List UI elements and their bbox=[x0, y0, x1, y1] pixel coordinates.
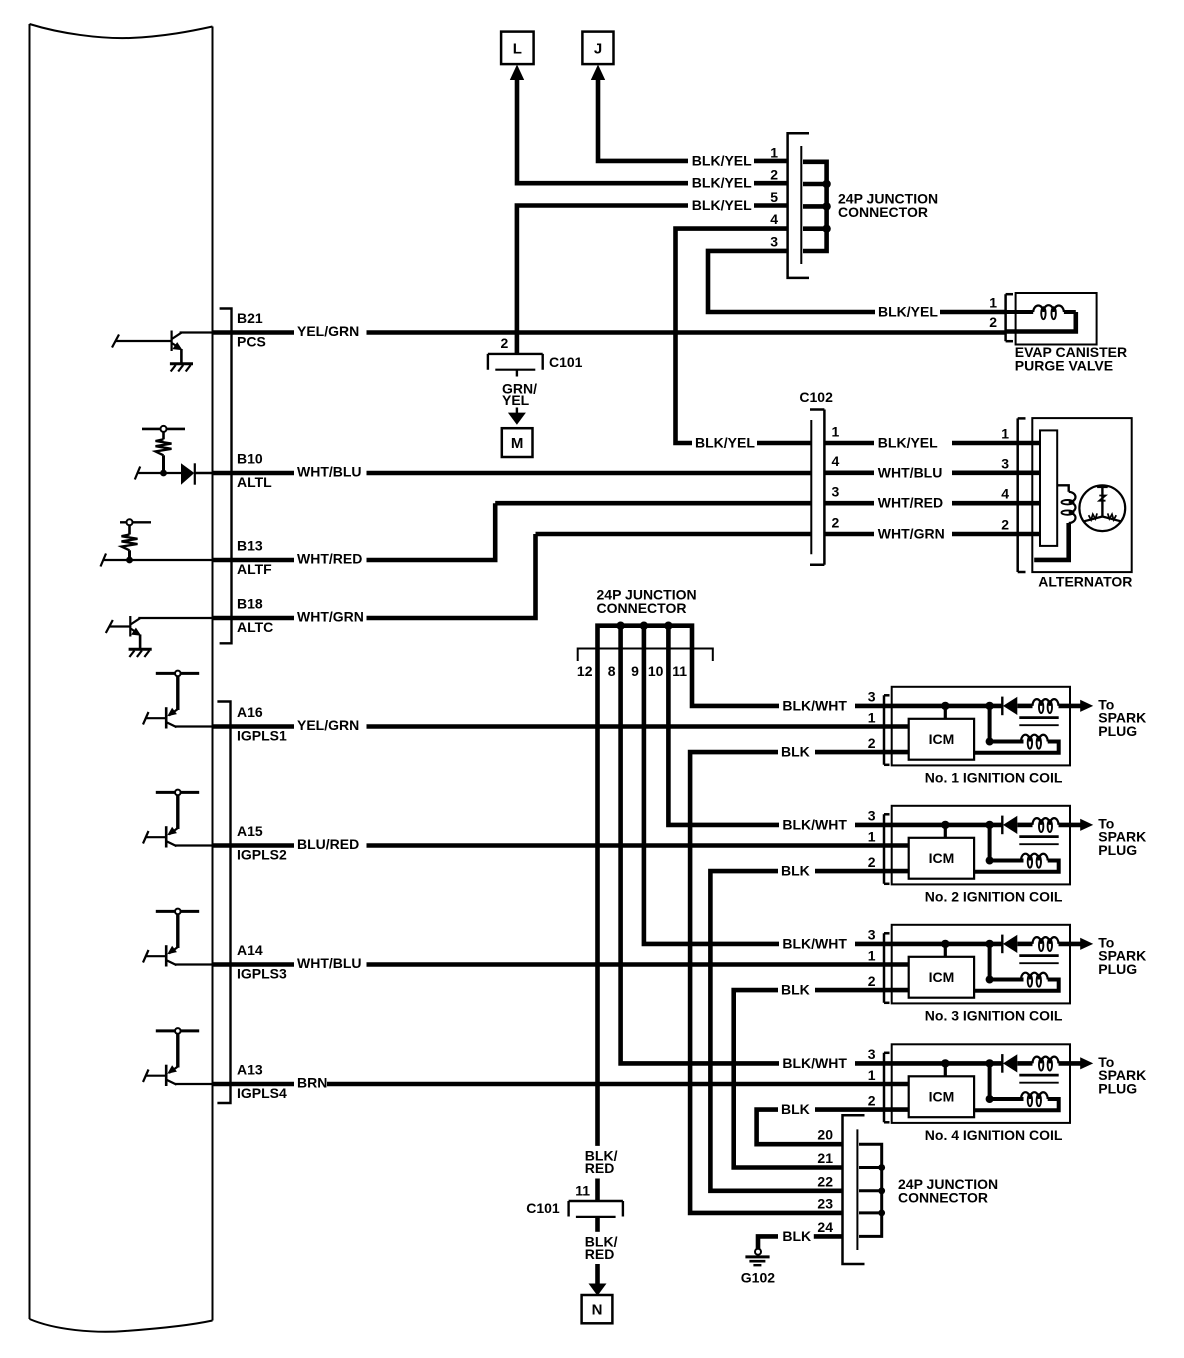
wire label BLK/YEL (C102 pin 1) bbox=[695, 435, 755, 451]
svg-text:ALTL: ALTL bbox=[237, 474, 272, 490]
arrow to spark plug (coil 4) bbox=[1080, 1057, 1093, 1069]
ignition coil 3 connector bracket bbox=[884, 933, 890, 1003]
voltage regulator field coil L2 bbox=[1034, 485, 1075, 560]
svg-text:A16: A16 bbox=[237, 704, 263, 720]
svg-text:8: 8 bbox=[608, 663, 616, 679]
svg-text:A13: A13 bbox=[237, 1062, 263, 1078]
connector C101 (bottom) symbol bbox=[569, 1201, 623, 1217]
svg-text:2: 2 bbox=[770, 167, 778, 183]
alternator box bbox=[1032, 418, 1131, 572]
wire B10 WHT/BLU to C102 pin 4 bbox=[213, 471, 811, 476]
pin 21 label (bottom connector) bbox=[817, 1150, 833, 1166]
pin 2 label (C102) bbox=[832, 514, 840, 530]
svg-text:ALTF: ALTF bbox=[237, 561, 272, 577]
pin A16 name label IGPLS1 bbox=[237, 727, 287, 743]
wire label BLK (ground) bbox=[782, 1228, 811, 1244]
wire label WHT/BLU bbox=[297, 955, 362, 971]
pin 11 label (C101 bottom) bbox=[575, 1182, 590, 1198]
node coil2 primary tap bbox=[985, 821, 1023, 865]
to-spark-plug label (coil 1) bbox=[1098, 696, 1146, 739]
svg-text:BLU/RED: BLU/RED bbox=[297, 836, 359, 852]
voltage supply node (B13 pull-up) bbox=[120, 519, 151, 525]
svg-text:ICM: ICM bbox=[929, 850, 955, 866]
to-spark-plug label (coil 4) bbox=[1098, 1054, 1146, 1097]
connector C102 name label bbox=[799, 389, 833, 405]
svg-text:24: 24 bbox=[817, 1219, 833, 1235]
wire label BRN bbox=[297, 1075, 327, 1091]
svg-text:B18: B18 bbox=[237, 596, 263, 612]
wire C102 pin2 WHT/GRN to alternator pin 2 bbox=[825, 532, 1018, 537]
24P junction connector (bottom) body bbox=[843, 1115, 865, 1264]
pin 3 label (coil 2) bbox=[868, 808, 876, 824]
ICM module U3 bbox=[909, 957, 974, 998]
svg-text:C102: C102 bbox=[799, 389, 833, 405]
wire label YEL/GRN bbox=[297, 717, 359, 733]
wire label BLK (coil 4) bbox=[781, 1101, 810, 1117]
wire label BLK/WHT (coil 4) bbox=[782, 1055, 847, 1071]
EVAP canister purge valve box bbox=[1016, 293, 1097, 345]
svg-text:IGPLS2: IGPLS2 bbox=[237, 846, 287, 862]
transistor Q2 (B18 ALTC driver) bbox=[106, 616, 213, 648]
svg-text:A14: A14 bbox=[237, 942, 263, 958]
svg-text:3: 3 bbox=[868, 808, 876, 824]
svg-text:1: 1 bbox=[868, 947, 876, 963]
svg-text:3: 3 bbox=[868, 1046, 876, 1062]
junction dot pin 8 bbox=[616, 622, 624, 630]
svg-text:BRN: BRN bbox=[297, 1075, 327, 1091]
wire coil 1 pin 2 BLK to bottom junction connector bbox=[690, 752, 909, 1213]
wire B13 internal bbox=[101, 554, 214, 567]
ECM connector bracket (B21-B18) bbox=[220, 309, 232, 644]
svg-text:BLK/WHT: BLK/WHT bbox=[782, 816, 847, 832]
svg-text:IGPLS4: IGPLS4 bbox=[237, 1085, 287, 1101]
node B13 junction bbox=[126, 557, 133, 564]
wire label BLK/RED (below C101) bbox=[585, 1234, 618, 1262]
pin B10 name label ALTL bbox=[237, 474, 272, 490]
primary winding (coil 2) bbox=[974, 854, 1059, 872]
ground (Q2 emitter) bbox=[129, 649, 152, 657]
diode D1 (B10) bbox=[181, 463, 213, 484]
wire label WHT/BLU (alternator) bbox=[878, 464, 943, 480]
svg-text:No. 3 IGNITION COIL: No. 3 IGNITION COIL bbox=[925, 1007, 1063, 1023]
svg-text:No. 1 IGNITION COIL: No. 1 IGNITION COIL bbox=[925, 769, 1063, 785]
svg-text:ALTERNATOR: ALTERNATOR bbox=[1038, 574, 1132, 590]
wire below C101 bbox=[595, 1217, 600, 1232]
wire label BLK/WHT (coil 3) bbox=[782, 935, 847, 951]
pin A13 name label IGPLS4 bbox=[237, 1085, 287, 1101]
secondary winding (coil 4) bbox=[1017, 1057, 1058, 1071]
node coil3 ICM tap bbox=[941, 940, 949, 957]
pin 2 label (coil 2) bbox=[868, 854, 876, 870]
svg-text:20: 20 bbox=[817, 1127, 833, 1143]
svg-text:PLUG: PLUG bbox=[1098, 842, 1137, 858]
wire coil 2 to spark plug bbox=[1059, 823, 1083, 828]
wire C102 pin1 BLK/YEL to alternator pin 1 bbox=[825, 441, 1018, 446]
wire coil 1 to spark plug bbox=[1059, 704, 1083, 709]
24P junction connector (top) name label bbox=[838, 191, 938, 221]
svg-text:YEL: YEL bbox=[502, 392, 530, 408]
off-page connector box L bbox=[501, 32, 533, 65]
svg-text:2: 2 bbox=[1001, 517, 1009, 533]
ignition coil 3 box bbox=[892, 925, 1070, 1004]
pin B13 number label bbox=[237, 538, 263, 554]
primary winding (coil 1) bbox=[974, 735, 1059, 753]
svg-text:ICM: ICM bbox=[929, 1088, 955, 1104]
24P junction connector (middle) name label bbox=[597, 587, 697, 617]
ground G102 name label bbox=[741, 1270, 775, 1286]
svg-text:2: 2 bbox=[832, 514, 840, 530]
pin A15 number label bbox=[237, 823, 263, 839]
ICM module U2 bbox=[909, 838, 974, 879]
pin 2 label (coil 1) bbox=[868, 735, 876, 751]
ignition coil 3 name label bbox=[925, 1007, 1063, 1023]
pin 3 label (alternator) bbox=[1001, 455, 1009, 471]
pin 22 label (bottom connector) bbox=[817, 1173, 833, 1189]
svg-text:B21: B21 bbox=[237, 310, 263, 326]
svg-text:1: 1 bbox=[868, 709, 876, 725]
svg-text:BLK/YEL: BLK/YEL bbox=[878, 304, 938, 320]
wire pin 24 BLK to ground bbox=[758, 1236, 843, 1248]
wire label BLK (coil 1) bbox=[781, 744, 810, 760]
svg-text:1: 1 bbox=[868, 1067, 876, 1083]
off-page connector box N bbox=[582, 1295, 613, 1323]
svg-text:CONNECTOR: CONNECTOR bbox=[898, 1190, 988, 1206]
pin 2 label (coil 4) bbox=[868, 1092, 876, 1108]
pin A14 number label bbox=[237, 942, 263, 958]
wire junction pin 9 to No.3 coil pin 3 BLK/WHT bbox=[644, 626, 1002, 944]
secondary winding (coil 1) bbox=[1017, 699, 1058, 713]
pin A13 number label bbox=[237, 1062, 263, 1078]
wire label BLK/YEL (alternator) bbox=[878, 435, 938, 451]
transformer core (coil 3) bbox=[1019, 956, 1058, 964]
wire coil 4 to spark plug bbox=[1059, 1061, 1083, 1066]
pin A15 name label IGPLS2 bbox=[237, 846, 287, 862]
svg-text:BLK/WHT: BLK/WHT bbox=[782, 1055, 847, 1071]
svg-text:RED: RED bbox=[585, 1246, 615, 1262]
pin 1 label (C102) bbox=[832, 423, 840, 439]
24P junction connector (bottom) internal bus bbox=[859, 1144, 882, 1236]
svg-text:WHT/RED: WHT/RED bbox=[878, 495, 943, 511]
wire label BLK (coil 3) bbox=[781, 982, 810, 998]
pin 24 label (bottom connector) bbox=[817, 1219, 833, 1235]
svg-text:PCS: PCS bbox=[237, 333, 266, 349]
pin 3 label (coil 3) bbox=[868, 927, 876, 943]
svg-text:BLK/WHT: BLK/WHT bbox=[782, 697, 847, 713]
pin 1 label (coil 3) bbox=[868, 947, 876, 963]
connector C101 (bottom) name label bbox=[526, 1200, 560, 1216]
primary winding (coil 4) bbox=[974, 1092, 1059, 1110]
pin 2 label (alternator) bbox=[1001, 517, 1009, 533]
24P junction connector (bottom) name label bbox=[898, 1176, 998, 1206]
wire label BLK/WHT (coil 2) bbox=[782, 816, 847, 832]
svg-text:2: 2 bbox=[501, 335, 509, 351]
ICM module U1 bbox=[909, 719, 974, 760]
svg-text:BLK/WHT: BLK/WHT bbox=[782, 935, 847, 951]
ignition coil 4 name label bbox=[925, 1127, 1063, 1143]
svg-text:9: 9 bbox=[631, 663, 639, 679]
svg-text:YEL/GRN: YEL/GRN bbox=[297, 323, 359, 339]
pin 2 label (coil 3) bbox=[868, 973, 876, 989]
alternator name label bbox=[1038, 574, 1132, 590]
arrow to spark plug (coil 2) bbox=[1080, 819, 1093, 831]
svg-text:BLK/YEL: BLK/YEL bbox=[878, 435, 938, 451]
wire label BLK/RED (above C101) bbox=[585, 1148, 618, 1176]
transistor Q1 (B21 PCS driver) bbox=[112, 331, 213, 363]
pin B18 name label ALTC bbox=[237, 619, 273, 635]
node coil4 primary tap bbox=[985, 1059, 1023, 1103]
svg-text:L: L bbox=[513, 41, 522, 58]
pin 3 label (coil 1) bbox=[868, 689, 876, 705]
svg-text:3: 3 bbox=[1001, 455, 1009, 471]
svg-text:RED: RED bbox=[585, 1160, 615, 1176]
off-page connector box M bbox=[502, 428, 533, 457]
wire label WHT/GRN bbox=[297, 609, 364, 625]
wire C102 pin4 WHT/BLU to alternator pin 3 bbox=[825, 470, 1018, 475]
diode D3 (coil 2) bbox=[1002, 816, 1017, 835]
pin B10 number label bbox=[237, 451, 263, 467]
ignition coil 2 box bbox=[892, 806, 1070, 885]
arrow to M bbox=[508, 413, 526, 425]
svg-text:PLUG: PLUG bbox=[1098, 1081, 1137, 1097]
wire label BLK/YEL (pin 5) bbox=[692, 197, 752, 213]
to-spark-plug label (coil 2) bbox=[1098, 815, 1146, 858]
pin 10 label (middle connector) bbox=[648, 663, 664, 679]
wire C102 pin3 WHT/RED to alternator pin 4 bbox=[825, 501, 1018, 506]
junction dot pin 9 bbox=[640, 622, 648, 630]
pin 4 label (alternator) bbox=[1001, 486, 1009, 502]
wire label GRN/YEL bbox=[502, 380, 537, 408]
connector C101 (top) symbol bbox=[488, 354, 543, 377]
pin B13 name label ALTF bbox=[237, 561, 272, 577]
svg-text:WHT/GRN: WHT/GRN bbox=[878, 526, 945, 542]
wire B21 YEL/GRN to C101 and EVAP valve bbox=[213, 330, 1006, 335]
pin 2 label (top connector) bbox=[770, 167, 778, 183]
pin 1 label (alternator) bbox=[1001, 426, 1009, 442]
svg-text:ICM: ICM bbox=[929, 731, 955, 747]
svg-text:4: 4 bbox=[770, 211, 778, 227]
solenoid coil L1 (EVAP valve) bbox=[1006, 305, 1076, 331]
svg-text:G102: G102 bbox=[741, 1270, 775, 1286]
primary winding (coil 3) bbox=[974, 973, 1059, 991]
svg-text:11: 11 bbox=[672, 663, 687, 679]
junction bus wire 12-to-11 bbox=[598, 626, 780, 1146]
svg-text:3: 3 bbox=[868, 927, 876, 943]
svg-text:2: 2 bbox=[868, 735, 876, 751]
arrow to N bbox=[589, 1284, 607, 1296]
arrow to spark plug (coil 3) bbox=[1080, 938, 1093, 950]
node coil1 ICM tap bbox=[941, 702, 949, 719]
wire label WHT/GRN (alternator) bbox=[878, 526, 945, 542]
wire label WHT/RED (alternator) bbox=[878, 495, 943, 511]
ignition coil 4 connector bracket bbox=[884, 1053, 890, 1123]
pin A14 name label IGPLS3 bbox=[237, 965, 287, 981]
wire junction pin 3 BLK/YEL to EVAP valve pin 1 bbox=[708, 251, 1006, 312]
to-spark-plug label (coil 3) bbox=[1098, 934, 1146, 977]
svg-text:12: 12 bbox=[577, 663, 593, 679]
svg-text:WHT/BLU: WHT/BLU bbox=[297, 955, 362, 971]
pin 23 label (bottom connector) bbox=[817, 1195, 833, 1211]
junction dot pin 4 bbox=[822, 225, 830, 233]
ground (Q1 emitter) bbox=[170, 364, 193, 372]
wire junction pin 4 BLK/YEL to C102 pin 1 bbox=[676, 229, 811, 443]
svg-text:3: 3 bbox=[770, 234, 778, 250]
svg-text:3: 3 bbox=[832, 484, 840, 500]
transformer core (coil 2) bbox=[1019, 837, 1058, 845]
ignition coil 2 name label bbox=[925, 888, 1063, 904]
wire label BLK/YEL (pin 2) bbox=[692, 175, 752, 191]
wire label WHT/BLU bbox=[297, 464, 362, 480]
pin 2 label (C101 top) bbox=[501, 335, 509, 351]
node coil1 primary tap bbox=[985, 702, 1023, 746]
transistor Q6 (A13 IGPLS4 driver) bbox=[143, 1028, 213, 1086]
24P junction connector (top) internal bus bbox=[803, 162, 827, 251]
transistor Q4 (A15 IGPLS2 driver) bbox=[143, 790, 213, 848]
pin 8 label (middle connector) bbox=[608, 663, 616, 679]
pin B21 number label bbox=[237, 310, 263, 326]
ignition coil 1 box bbox=[892, 687, 1070, 766]
svg-text:1: 1 bbox=[832, 423, 840, 439]
svg-text:2: 2 bbox=[989, 314, 997, 330]
wire junction pin 11 to No.1 coil pin 3 BLK/WHT bbox=[855, 704, 1002, 709]
wire A15 BLU/RED to No.2 ignition coil pin 1 bbox=[213, 843, 909, 848]
arrow to J bbox=[591, 65, 605, 81]
arrow to spark plug (coil 1) bbox=[1080, 700, 1093, 712]
svg-text:WHT/RED: WHT/RED bbox=[297, 551, 362, 567]
pin 1 label (top connector) bbox=[770, 144, 778, 160]
svg-text:WHT/GRN: WHT/GRN bbox=[297, 609, 364, 625]
secondary winding (coil 3) bbox=[1017, 937, 1058, 951]
junction dot pin 21 bbox=[878, 1164, 885, 1171]
svg-text:No. 2 IGNITION COIL: No. 2 IGNITION COIL bbox=[925, 888, 1063, 904]
junction dot pin 10 bbox=[664, 622, 672, 630]
node B10 junction bbox=[160, 470, 167, 477]
pin A16 number label bbox=[237, 704, 263, 720]
svg-text:C101: C101 bbox=[549, 354, 583, 370]
ignition coil 1 connector bracket bbox=[884, 695, 890, 765]
pin 1 label (EVAP valve) bbox=[989, 295, 997, 311]
svg-text:WHT/BLU: WHT/BLU bbox=[878, 464, 943, 480]
pin 9 label (middle connector) bbox=[631, 663, 639, 679]
svg-text:YEL/GRN: YEL/GRN bbox=[297, 717, 359, 733]
svg-text:23: 23 bbox=[817, 1195, 833, 1211]
node coil4 ICM tap bbox=[941, 1059, 949, 1076]
wire A16 YEL/GRN to No.1 ignition coil pin 1 bbox=[213, 724, 909, 729]
EVAP valve connector bracket bbox=[1006, 294, 1013, 341]
svg-text:3: 3 bbox=[868, 689, 876, 705]
svg-text:BLK: BLK bbox=[781, 744, 810, 760]
pin B21 name label PCS bbox=[237, 333, 266, 349]
wire A14 WHT/BLU to No.3 ignition coil pin 1 bbox=[213, 962, 909, 967]
svg-text:21: 21 bbox=[817, 1150, 833, 1166]
off-page connector box J bbox=[582, 32, 613, 65]
wire label BLK/WHT (coil 1) bbox=[782, 697, 847, 713]
junction dot pin 5 bbox=[822, 202, 830, 210]
secondary winding (coil 2) bbox=[1017, 818, 1058, 832]
transistor Q3 (A16 IGPLS1 driver) bbox=[143, 671, 213, 729]
svg-text:BLK: BLK bbox=[781, 863, 810, 879]
pin 5 label (top connector) bbox=[770, 189, 778, 205]
svg-text:ICM: ICM bbox=[929, 969, 955, 985]
wire coil 2 pin 2 BLK to bottom junction connector bbox=[710, 871, 908, 1191]
pin 12 label (middle connector) bbox=[577, 663, 593, 679]
svg-text:5: 5 bbox=[770, 189, 778, 205]
svg-text:2: 2 bbox=[868, 854, 876, 870]
transformer core (coil 4) bbox=[1019, 1075, 1058, 1083]
ECM connector bracket (A16-A13) bbox=[217, 702, 230, 1104]
svg-text:4: 4 bbox=[832, 453, 840, 469]
svg-text:BLK: BLK bbox=[781, 982, 810, 998]
EVAP canister purge valve name label bbox=[1015, 344, 1127, 374]
svg-text:IGPLS3: IGPLS3 bbox=[237, 965, 287, 981]
alternator connector bracket bbox=[1018, 418, 1026, 572]
svg-text:BLK: BLK bbox=[781, 1101, 810, 1117]
svg-text:WHT/BLU: WHT/BLU bbox=[297, 464, 362, 480]
wire junction pin 10 to No.2 coil pin 3 BLK/WHT bbox=[668, 626, 1001, 825]
transformer core (coil 1) bbox=[1019, 718, 1058, 726]
diode D2 (coil 1) bbox=[1002, 697, 1017, 716]
svg-text:10: 10 bbox=[648, 663, 664, 679]
node coil3 primary tap bbox=[985, 940, 1023, 984]
wire coil 4 pin 2 BLK to bottom junction connector bbox=[757, 1110, 909, 1145]
ignition coil 2 connector bracket bbox=[884, 814, 890, 884]
wire label BLK/YEL (pin 1) bbox=[692, 152, 752, 168]
svg-text:J: J bbox=[594, 41, 602, 58]
voltage supply node (B10 pull-up) bbox=[142, 426, 185, 432]
svg-text:BLK/YEL: BLK/YEL bbox=[695, 435, 755, 451]
arrow to L bbox=[510, 65, 524, 81]
svg-text:IGPLS1: IGPLS1 bbox=[237, 727, 287, 743]
pin 4 label (top connector) bbox=[770, 211, 778, 227]
svg-text:1: 1 bbox=[1001, 426, 1009, 442]
svg-text:CONNECTOR: CONNECTOR bbox=[597, 600, 687, 616]
ICM module U4 bbox=[909, 1076, 974, 1117]
pin 2 label (EVAP valve) bbox=[989, 314, 997, 330]
svg-text:BLK: BLK bbox=[782, 1228, 811, 1244]
wire B18 WHT/GRN to C102 pin 2 bbox=[213, 534, 811, 618]
svg-text:1: 1 bbox=[770, 144, 778, 160]
pin 11 label (middle connector) bbox=[672, 663, 687, 679]
24P junction connector (top) body bbox=[788, 133, 809, 278]
24P junction connector (middle) face bbox=[578, 649, 713, 662]
svg-text:No. 4 IGNITION COIL: No. 4 IGNITION COIL bbox=[925, 1127, 1063, 1143]
resistor R1 (B10 pull-up) bbox=[156, 432, 172, 473]
svg-text:1: 1 bbox=[868, 828, 876, 844]
wire Q-base B10 internal bbox=[135, 467, 181, 480]
svg-text:22: 22 bbox=[817, 1173, 833, 1189]
pin 20 label (bottom connector) bbox=[817, 1127, 833, 1143]
wire label BLK (coil 2) bbox=[781, 863, 810, 879]
pin 3 label (C102) bbox=[832, 484, 840, 500]
wire to C101 pin 11 bbox=[595, 1179, 600, 1202]
svg-text:BLK/YEL: BLK/YEL bbox=[692, 175, 752, 191]
pin B18 number label bbox=[237, 596, 263, 612]
alternator pin stub wires bbox=[1018, 443, 1040, 534]
wire to M bbox=[516, 408, 518, 414]
ignition coil 4 box bbox=[892, 1044, 1070, 1123]
resistor R2 (B13 pull-up) bbox=[122, 525, 138, 560]
diode D4 (coil 3) bbox=[1002, 935, 1017, 954]
svg-text:PURGE VALVE: PURGE VALVE bbox=[1015, 358, 1113, 374]
wire junction pin 5 BLK/YEL down to C101 bbox=[517, 206, 788, 354]
wire L to junction pin 2 BLK/YEL bbox=[517, 78, 788, 183]
pin 1 label (coil 2) bbox=[868, 828, 876, 844]
wire label BLK/YEL (EVAP valve) bbox=[878, 304, 938, 320]
svg-text:2: 2 bbox=[868, 1092, 876, 1108]
svg-text:B10: B10 bbox=[237, 451, 263, 467]
pin 3 label (coil 4) bbox=[868, 1046, 876, 1062]
svg-text:ALTC: ALTC bbox=[237, 619, 273, 635]
wire J to junction pin 1 BLK/YEL bbox=[598, 78, 788, 161]
